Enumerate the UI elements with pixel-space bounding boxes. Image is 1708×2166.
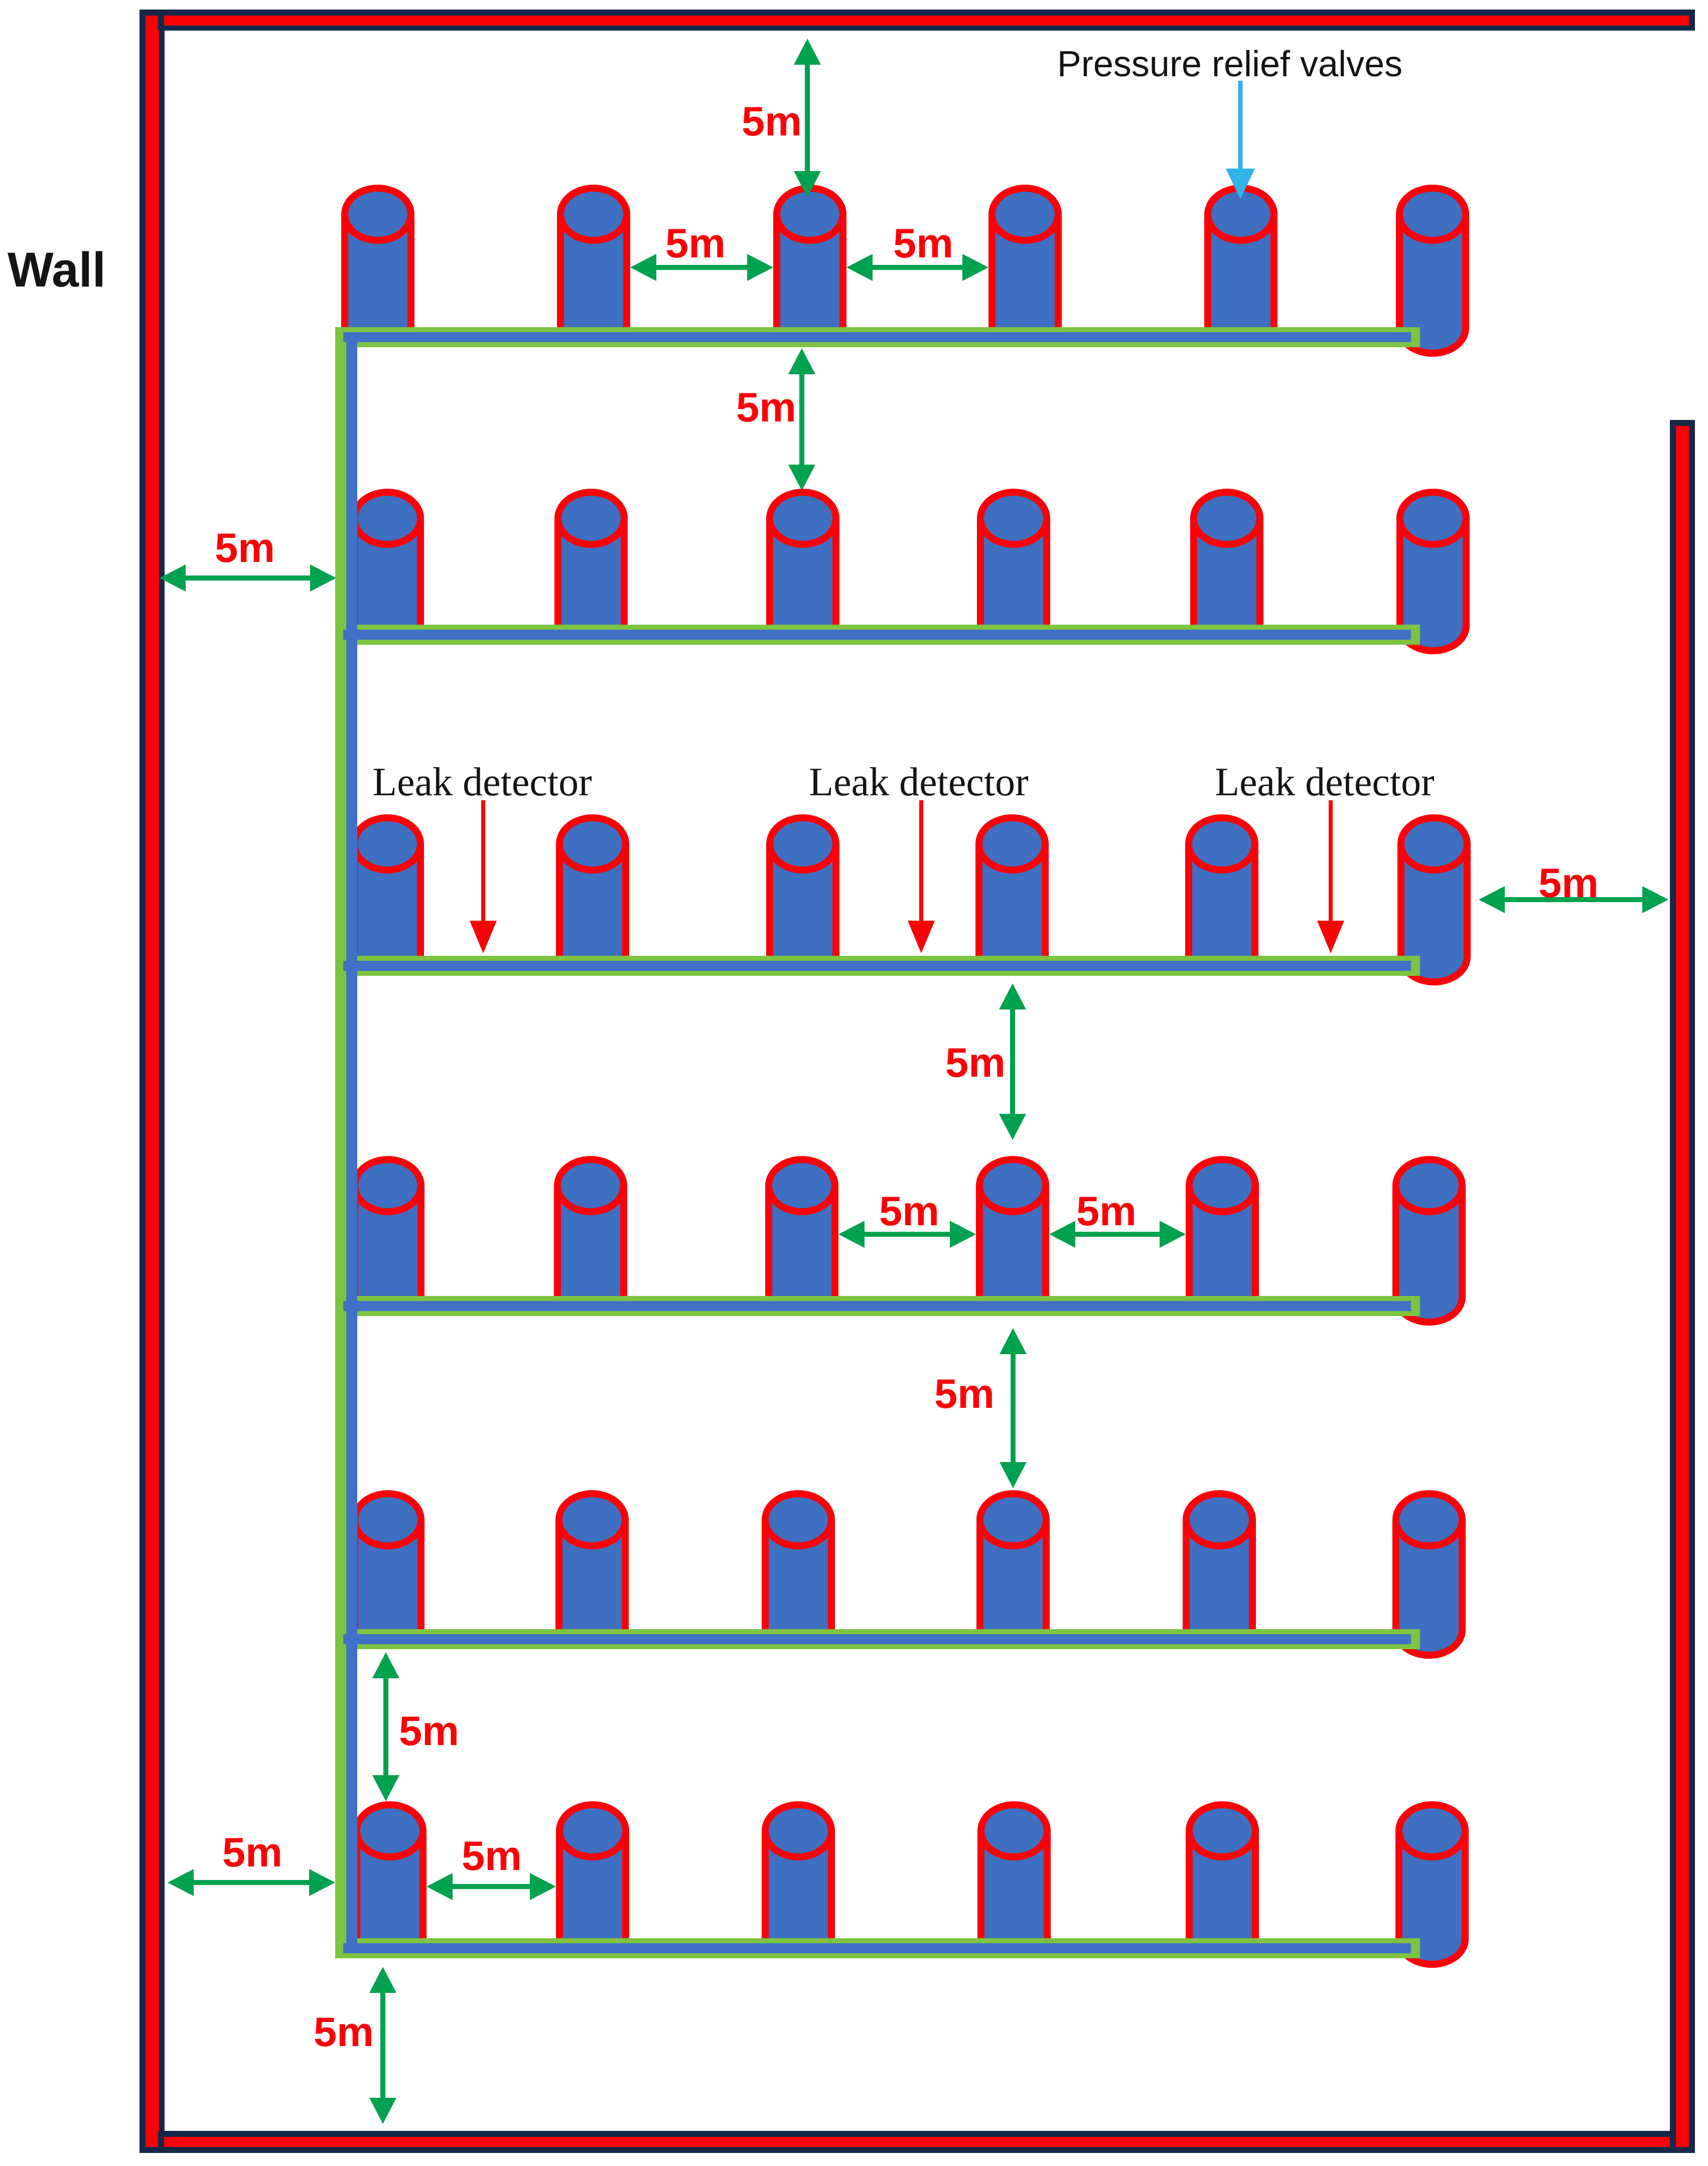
svg-text:Pressure relief valves: Pressure relief valves [1057, 44, 1402, 84]
svg-text:Leak detector: Leak detector [809, 760, 1029, 804]
svg-text:5m: 5m [934, 1370, 994, 1417]
svg-text:Wall: Wall [8, 242, 106, 297]
svg-text:5m: 5m [665, 220, 726, 266]
svg-text:5m: 5m [1538, 859, 1599, 906]
svg-text:5m: 5m [945, 1039, 1006, 1086]
svg-text:5m: 5m [1076, 1188, 1136, 1234]
svg-text:5m: 5m [742, 98, 802, 145]
svg-text:5m: 5m [314, 2008, 374, 2055]
svg-text:5m: 5m [893, 220, 953, 266]
svg-text:Leak detector: Leak detector [372, 760, 592, 804]
svg-text:Leak detector: Leak detector [1215, 760, 1435, 804]
svg-text:5m: 5m [215, 524, 275, 571]
svg-text:5m: 5m [462, 1832, 522, 1879]
svg-text:5m: 5m [879, 1188, 939, 1234]
svg-text:5m: 5m [222, 1829, 282, 1875]
svg-text:5m: 5m [399, 1707, 459, 1754]
svg-text:5m: 5m [736, 384, 796, 430]
